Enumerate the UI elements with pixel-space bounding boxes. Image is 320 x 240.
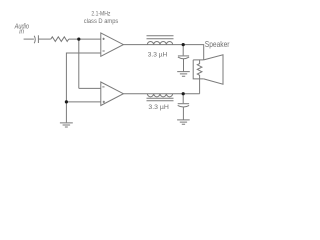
svg-text:in: in	[19, 27, 24, 36]
svg-text:2.1-MHz: 2.1-MHz	[91, 11, 110, 18]
svg-text:3.3 µH: 3.3 µH	[148, 51, 168, 58]
svg-text:Speaker: Speaker	[205, 40, 230, 49]
svg-text:class D amps: class D amps	[84, 18, 119, 25]
svg-text:3.3 µH: 3.3 µH	[148, 104, 169, 111]
